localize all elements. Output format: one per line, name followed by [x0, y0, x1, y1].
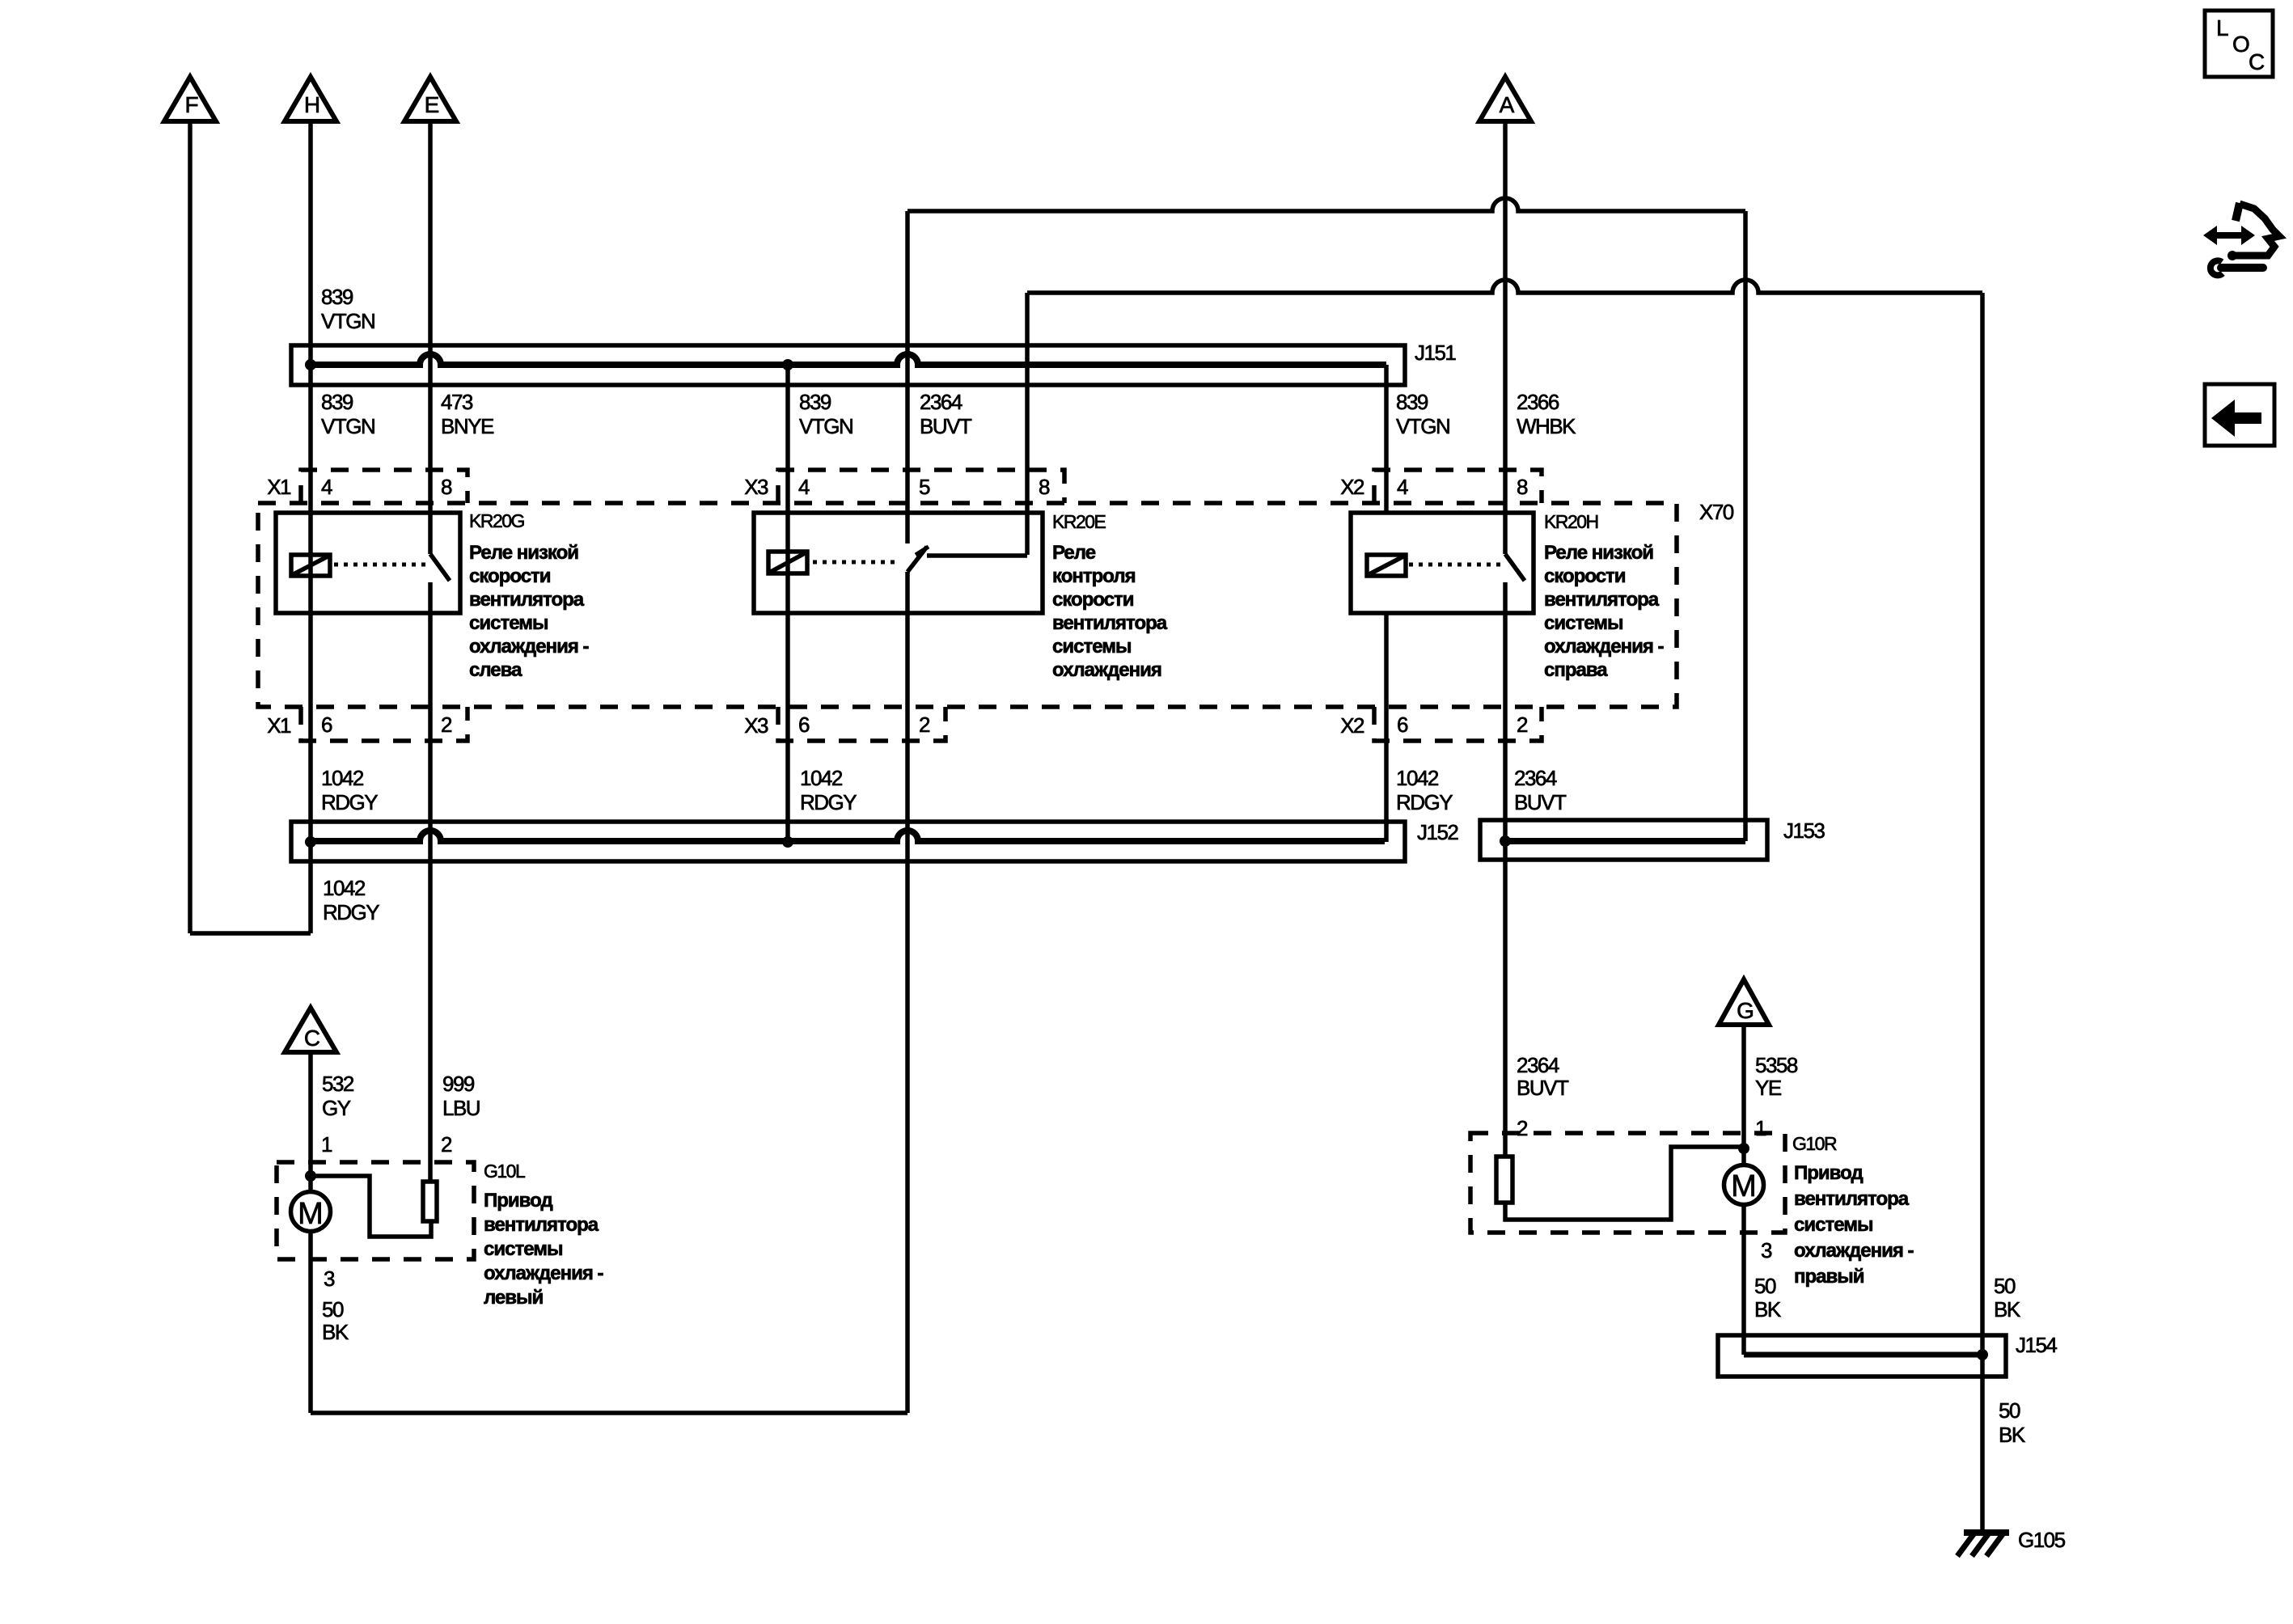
relay KR20E switch blade	[907, 547, 927, 572]
wire line1 KR20E pin5 to J153	[907, 198, 1745, 211]
svg-text:RDGY: RDGY	[800, 790, 857, 814]
svg-text:J154: J154	[2016, 1333, 2057, 1357]
svg-text:50: 50	[322, 1297, 344, 1322]
svg-text:839: 839	[321, 285, 353, 309]
svg-text:LBU: LBU	[442, 1096, 480, 1120]
svg-text:скорости: скорости	[1544, 565, 1626, 587]
svg-text:системы: системы	[1544, 612, 1622, 634]
relay KR20E box	[754, 513, 1043, 613]
splice pack J152 box	[291, 822, 1405, 861]
J151 bus bar	[311, 354, 1386, 365]
wire F-to-1042 horizontal	[190, 931, 311, 936]
wire 532 GY C to G10L motor	[308, 1052, 313, 1191]
junction dot J154	[1977, 1349, 1988, 1360]
svg-text:50: 50	[1999, 1398, 2020, 1423]
svg-text:VTGN: VTGN	[321, 309, 374, 333]
G10R resistor	[1496, 1157, 1512, 1203]
svg-text:473: 473	[441, 390, 473, 414]
off-page connector C	[285, 1008, 336, 1052]
svg-text:RDGY: RDGY	[1396, 790, 1453, 814]
svg-text:системы: системы	[1052, 636, 1131, 658]
svg-text:G105: G105	[2018, 1528, 2066, 1552]
svg-text:вентилятора: вентилятора	[1544, 589, 1660, 611]
svg-text:X1: X1	[267, 475, 291, 499]
svg-text:2: 2	[1517, 713, 1528, 737]
relay KR20G link dotted	[334, 563, 428, 567]
relay KR20G box	[276, 513, 460, 613]
svg-text:6: 6	[321, 713, 332, 737]
relay KR20H coil diagonal	[1368, 556, 1405, 575]
wire 2366 WHBK A vertical to KR20H pin 8	[1503, 121, 1508, 554]
svg-text:1042: 1042	[1396, 766, 1439, 790]
svg-text:839: 839	[799, 390, 831, 414]
svg-text:KR20E: KR20E	[1052, 511, 1106, 532]
svg-text:RDGY: RDGY	[321, 790, 378, 814]
connector X2 top pin box	[1374, 470, 1542, 503]
svg-text:скорости: скорости	[1052, 589, 1134, 611]
splice pack J154 box	[1718, 1335, 2006, 1377]
ground G105	[1964, 1529, 2009, 1536]
svg-text:1042: 1042	[800, 766, 843, 790]
svg-text:1042: 1042	[323, 876, 366, 900]
relay KR20E contact to pin8	[927, 553, 1027, 558]
svg-text:Реле низкой: Реле низкой	[469, 542, 578, 564]
wire 2364 BUVT right vertical to J153	[1743, 211, 1748, 841]
junction dot J151 at KR20E pin4 wire	[782, 359, 793, 370]
relay KR20H box	[1351, 513, 1534, 613]
svg-text:вентилятора: вентилятора	[1052, 612, 1168, 634]
svg-text:правый: правый	[1794, 1266, 1864, 1288]
svg-text:охлаждения: охлаждения	[1052, 659, 1161, 681]
svg-text:8: 8	[1039, 475, 1050, 499]
svg-text:M: M	[298, 1197, 324, 1231]
svg-text:BUVT: BUVT	[1517, 1076, 1569, 1100]
motor G10L dashed box	[277, 1162, 474, 1259]
svg-text:4: 4	[1397, 475, 1408, 499]
relay KR20G coil diagonal	[292, 556, 329, 575]
svg-text:1042: 1042	[321, 766, 364, 790]
junction dot J152 at 1042 wire	[305, 836, 316, 848]
svg-text:F: F	[184, 92, 198, 117]
svg-text:2: 2	[441, 1132, 452, 1157]
relay KR20G coil	[291, 555, 330, 576]
wire 999 LBU KR20G pin2 down to G10L resistor	[428, 582, 433, 1182]
connector X1 top pin box	[301, 470, 467, 503]
svg-text:2364: 2364	[920, 390, 962, 414]
junction dot J153	[1500, 835, 1511, 847]
svg-text:слева: слева	[469, 659, 522, 681]
relay KR20E coil	[768, 552, 807, 573]
svg-text:BNYE: BNYE	[441, 414, 494, 438]
svg-text:охлаждения -: охлаждения -	[1794, 1240, 1914, 1262]
motor G10R dashed box	[1470, 1133, 1785, 1233]
wire 839 VTGN KR20E pin4-pin6 vertical	[785, 365, 790, 842]
svg-text:YE: YE	[1755, 1076, 1782, 1100]
G10L internal wire	[311, 1176, 431, 1237]
wire 50 BK bottom horizontal to KR20E pin2	[311, 1410, 907, 1415]
J152 bus bar	[311, 831, 1385, 841]
relay KR20H coil	[1367, 555, 1406, 576]
svg-text:6: 6	[798, 713, 810, 737]
wire F vertical 532 circuit	[188, 121, 192, 933]
splice pack J151 box	[291, 345, 1405, 385]
svg-text:2364: 2364	[1517, 1053, 1559, 1077]
wire 473 BNYE E vertical to KR20G pin 8	[428, 121, 433, 554]
svg-text:охлаждения -: охлаждения -	[469, 636, 590, 658]
off-page connector F	[164, 77, 216, 121]
svg-text:O: O	[2232, 32, 2250, 57]
wire 50 BK G10R pin3 down to J154	[1741, 1204, 1746, 1355]
svg-text:E: E	[425, 92, 440, 117]
svg-text:J152: J152	[1417, 820, 1458, 844]
svg-text:8: 8	[441, 475, 452, 499]
wire line2 KR20E pin8 to J154/G105	[1027, 280, 1982, 293]
svg-text:скорости: скорости	[469, 565, 551, 587]
svg-text:GY: GY	[322, 1096, 351, 1120]
connector X2 bottom pin box	[1374, 707, 1542, 741]
wire KR20E pin2 vertical down	[905, 572, 910, 1413]
svg-text:A: A	[1500, 92, 1515, 117]
svg-text:контроля: контроля	[1052, 565, 1136, 587]
wire 2364 BUVT KR20H pin2 down to G10R	[1503, 582, 1508, 1157]
relay KR20H switch blade	[1505, 554, 1525, 581]
svg-text:6: 6	[1397, 713, 1408, 737]
svg-text:3: 3	[324, 1267, 335, 1291]
wire 50 BK G10L pin3 down	[308, 1231, 313, 1413]
svg-text:2: 2	[919, 713, 930, 737]
svg-text:G: G	[1737, 998, 1754, 1023]
off-page connector E	[404, 77, 456, 121]
relay KR20E coil diagonal	[769, 552, 806, 573]
svg-text:BK: BK	[1754, 1297, 1782, 1322]
svg-text:охлаждения -: охлаждения -	[1544, 636, 1665, 658]
svg-text:X2: X2	[1340, 475, 1364, 499]
svg-text:BUVT: BUVT	[1514, 790, 1567, 814]
wire 5358 YE G to G10R motor	[1741, 1025, 1746, 1164]
relay KR20E switch blade tick	[916, 547, 929, 555]
junction dot G10L pin1	[305, 1170, 316, 1182]
wire 1042 RDGY KR20H pin6 down to J152	[1384, 613, 1389, 842]
svg-text:X70: X70	[1699, 500, 1734, 524]
J154 bus bar	[1744, 1352, 1982, 1358]
svg-text:2: 2	[1517, 1116, 1528, 1140]
svg-text:системы: системы	[469, 612, 548, 634]
svg-text:G10R: G10R	[1792, 1133, 1837, 1154]
connector X3 bottom pin box	[778, 707, 946, 741]
svg-text:X3: X3	[744, 475, 768, 499]
svg-text:Реле низкой: Реле низкой	[1544, 542, 1653, 564]
relay KR20H link dotted	[1409, 563, 1502, 567]
motor G10L M circle	[291, 1192, 331, 1232]
svg-text:2364: 2364	[1514, 766, 1557, 790]
icon LOC box	[2205, 11, 2273, 77]
icon data-link arrows and wrench	[2203, 226, 2255, 245]
svg-text:Привод: Привод	[1794, 1162, 1863, 1184]
wire 2364 BUVT KR20E pin5 vertical upper	[905, 211, 910, 543]
svg-text:VTGN: VTGN	[1396, 414, 1449, 438]
svg-text:1: 1	[1755, 1116, 1766, 1140]
off-page connector H	[285, 77, 336, 121]
svg-text:VTGN: VTGN	[799, 414, 852, 438]
junction dot G10R pin1	[1738, 1143, 1749, 1154]
off-page connector A	[1479, 77, 1531, 121]
wire 50 BK right vertical to G105	[1980, 293, 1985, 1531]
G10R internal wire	[1505, 1147, 1744, 1220]
svg-text:L: L	[2216, 15, 2229, 40]
svg-text:вентилятора: вентилятора	[1794, 1188, 1910, 1210]
svg-text:охлаждения -: охлаждения -	[484, 1262, 604, 1284]
wire 839 VTGN H vertical / KR20G pin4-pin6 / 1042 RDGY	[308, 121, 313, 933]
svg-text:RDGY: RDGY	[323, 900, 379, 924]
svg-text:4: 4	[798, 475, 810, 499]
svg-text:3: 3	[1761, 1238, 1772, 1262]
svg-text:G10L: G10L	[484, 1161, 526, 1182]
svg-text:справа: справа	[1544, 659, 1608, 681]
svg-text:8: 8	[1517, 475, 1528, 499]
svg-text:системы: системы	[484, 1238, 562, 1260]
svg-text:вентилятора: вентилятора	[469, 589, 585, 611]
svg-text:50: 50	[1994, 1274, 2016, 1298]
svg-text:2: 2	[441, 713, 452, 737]
G10L resistor	[423, 1182, 437, 1221]
svg-text:C: C	[304, 1026, 320, 1051]
relay KR20E link dotted	[813, 560, 900, 565]
svg-text:J153: J153	[1783, 818, 1825, 843]
svg-text:999: 999	[442, 1072, 475, 1096]
junction dot J151 at H wire	[305, 359, 316, 370]
junction dot J152 at KR20E pin6 wire	[782, 836, 793, 848]
svg-text:532: 532	[322, 1072, 354, 1096]
connector X70 dashed box	[258, 503, 1677, 707]
connector X3 top pin box	[778, 470, 1064, 503]
svg-text:левый: левый	[484, 1287, 544, 1309]
svg-text:KR20G: KR20G	[469, 510, 525, 531]
svg-text:вентилятора: вентилятора	[484, 1214, 599, 1236]
svg-text:BK: BK	[1999, 1423, 2026, 1447]
svg-text:Привод: Привод	[484, 1190, 552, 1212]
svg-text:BUVT: BUVT	[920, 414, 972, 438]
svg-text:BK: BK	[1994, 1297, 2021, 1322]
motor G10R M circle	[1724, 1165, 1764, 1205]
svg-text:4: 4	[321, 475, 332, 499]
wire 839 VTGN J151 to KR20H pin4	[1384, 365, 1389, 513]
svg-text:системы: системы	[1794, 1214, 1872, 1236]
svg-text:Реле: Реле	[1052, 542, 1096, 564]
splice pack J153 box	[1480, 820, 1767, 860]
J153 bus bar	[1505, 838, 1745, 844]
svg-text:WHBK: WHBK	[1517, 414, 1576, 438]
svg-text:KR20H: KR20H	[1544, 511, 1598, 532]
svg-text:C: C	[2249, 49, 2265, 74]
wire KR20E pin8 vertical	[1025, 293, 1030, 555]
svg-text:2366: 2366	[1517, 390, 1559, 414]
svg-text:J151: J151	[1415, 340, 1456, 365]
svg-text:839: 839	[1396, 390, 1428, 414]
svg-text:X1: X1	[267, 713, 291, 738]
svg-text:X2: X2	[1340, 713, 1364, 738]
off-page connector G	[1719, 979, 1769, 1025]
svg-text:VTGN: VTGN	[321, 414, 374, 438]
svg-text:5: 5	[919, 475, 930, 499]
svg-text:50: 50	[1754, 1274, 1776, 1298]
svg-text:839: 839	[321, 390, 353, 414]
svg-text:M: M	[1731, 1169, 1757, 1203]
relay KR20G switch blade	[430, 554, 450, 581]
icon back arrow box	[2205, 384, 2274, 446]
svg-text:X3: X3	[744, 713, 768, 738]
svg-text:H: H	[304, 92, 320, 117]
connector X1 bottom pin box	[301, 707, 467, 741]
svg-text:BK: BK	[322, 1320, 349, 1344]
svg-text:1: 1	[321, 1132, 332, 1157]
svg-text:5358: 5358	[1755, 1053, 1798, 1077]
